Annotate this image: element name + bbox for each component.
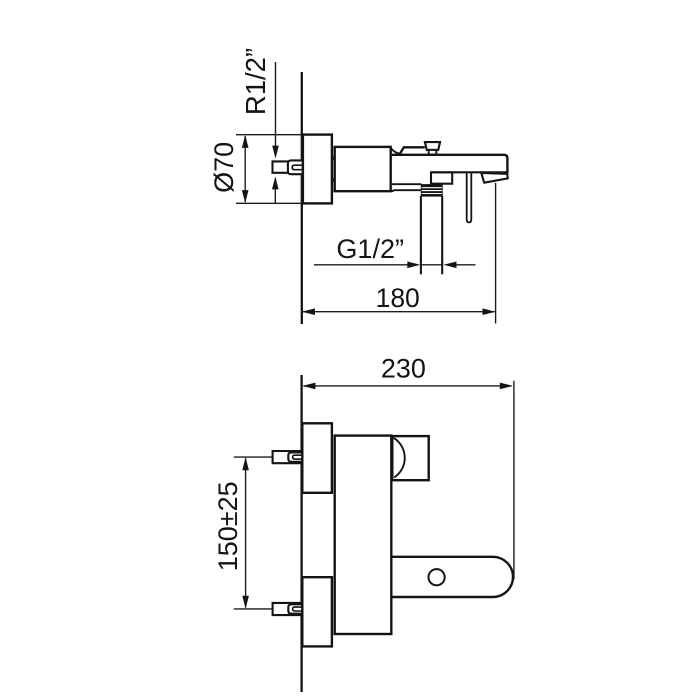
lower centerline extension [234,608,273,610]
shower hose tube (side view) [421,196,442,274]
dimension 180 dimension line with arrows [302,308,496,315]
body underside step (side view) [391,184,421,191]
lower R1/2 nipple (front view) [288,604,301,613]
spout stadium (front view) [392,557,514,597]
dimension 180 extension line [495,183,497,324]
spout bar bottom line (side view) [431,171,507,173]
spout bar top profile (side view) [391,155,508,174]
dimension Phi70 dimension line with arrows [242,135,249,203]
upper inlet pipe behind wall (front view) [273,450,302,464]
wall line (side view) [301,72,303,324]
diverter hole on spout (front view) [429,569,445,585]
handle block (front view) [392,436,428,480]
dimension G1/2 leader lines with arrows [314,262,476,269]
svg-text:R1/2”: R1/2” [240,48,271,115]
dimension 230 extension line [513,381,515,580]
hose holder block (side view) [431,172,452,183]
R1/2 threaded nipple (side view) [288,160,302,174]
upper R1/2 nipple (front view) [288,452,301,461]
mixer body column (front view) [335,436,392,634]
lever handle (side view) [391,147,425,154]
svg-text:180: 180 [376,283,420,313]
dimension 230 dimension line with arrows [302,383,512,390]
svg-text:G1/2”: G1/2” [336,234,404,264]
handle dome arc (front view) [394,438,405,478]
leader R1/2 arrows [272,62,279,203]
escutcheon plate (side view) [303,135,332,204]
body inlet stub upper (side view) [332,157,335,160]
dimension Phi70 extension lines [236,135,302,204]
hose nut, knurled (side view) [421,185,442,197]
lower inlet pipe behind wall (front view) [273,602,302,616]
svg-text:150±25: 150±25 [213,481,243,571]
dimension 150+-25 dimension line with arrows [242,457,249,609]
body inlet stub lower (side view) [332,178,335,181]
spout outlet wedge (side view) [481,173,507,183]
upper centerline extension [234,456,273,458]
wall line (front view) [300,375,302,692]
upper escutcheon (front view) [302,423,332,493]
svg-text:230: 230 [381,353,426,383]
inlet pipe behind wall (side view) [273,160,302,173]
lower escutcheon (front view) [302,577,332,646]
svg-text:Ø70: Ø70 [209,142,239,193]
mixer body (side view) [335,147,391,191]
diverter knob (side view) [425,142,440,154]
drop rod (side view) [467,173,472,222]
